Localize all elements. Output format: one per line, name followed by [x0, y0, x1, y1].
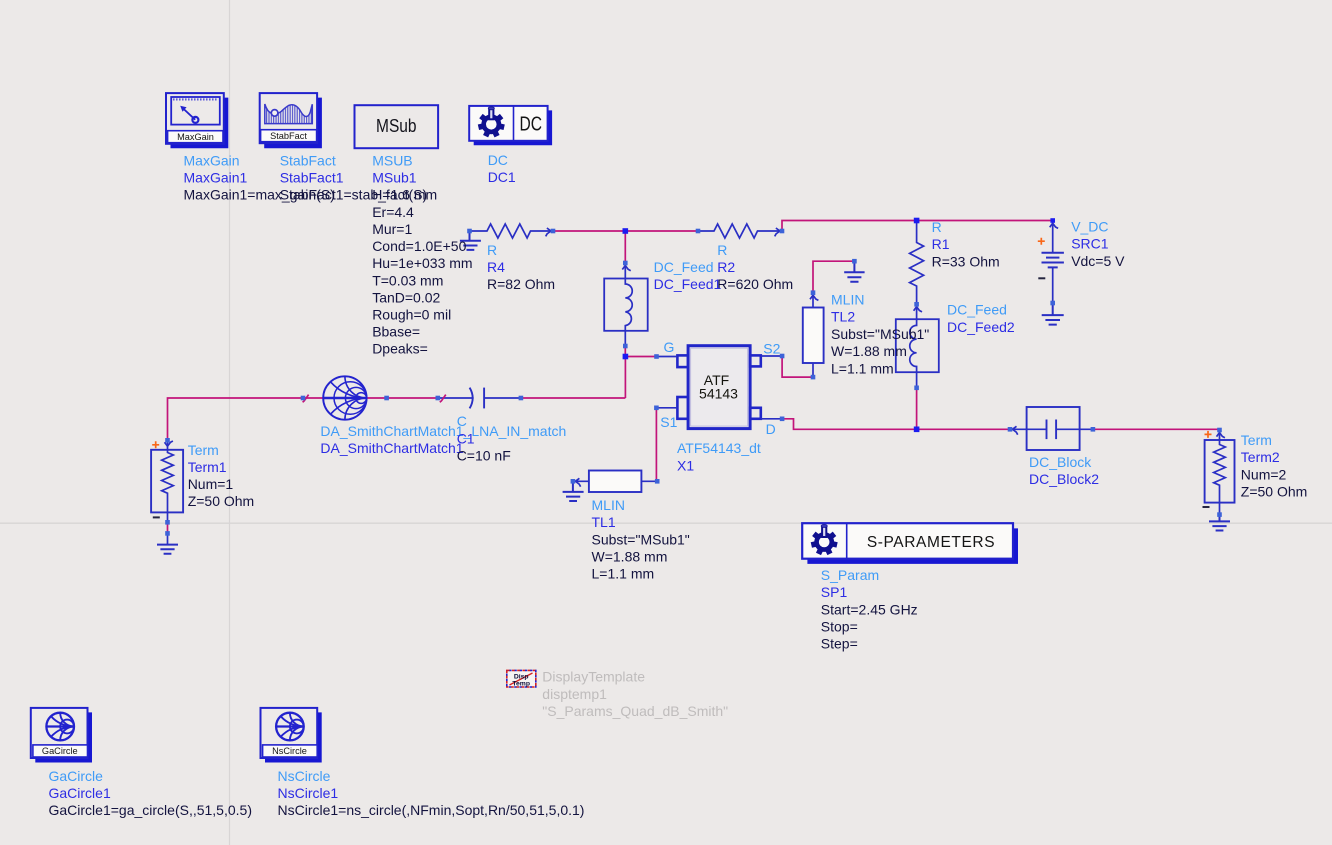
label S_Param SP1 values	[821, 567, 918, 652]
svg-text:Step=: Step=	[821, 636, 858, 652]
svg-text:C: C	[457, 413, 467, 429]
resistor R1	[910, 221, 924, 320]
wire D stub	[761, 418, 782, 420]
plus sign V_DC	[1038, 238, 1045, 245]
StabFact measurement icon	[260, 93, 322, 148]
node TL1 left	[571, 479, 576, 484]
wire drain to output line	[782, 419, 1010, 430]
svg-text:disptemp1: disptemp1	[542, 686, 607, 702]
svg-text:DA_SmithChartMatch1_LNA_IN_mat: DA_SmithChartMatch1_LNA_IN_match	[320, 423, 566, 439]
label DC_Feed1	[654, 259, 722, 292]
S-PARAMETERS simulation controller icon SP1	[802, 523, 1018, 564]
svg-text:TanD=0.02: TanD=0.02	[372, 289, 440, 305]
wire TL2 top to bias ground	[813, 261, 854, 293]
svg-text:DisplayTemplate: DisplayTemplate	[542, 669, 645, 685]
svg-text:MSUB: MSUB	[372, 153, 412, 169]
wire smith chart to C1	[366, 397, 438, 399]
node V_DC bottom	[1050, 301, 1055, 306]
svg-text:DC_Feed: DC_Feed	[947, 302, 1007, 318]
svg-text:DC: DC	[488, 152, 508, 168]
svg-text:MSub1: MSub1	[372, 170, 417, 186]
svg-text:DC_Block: DC_Block	[1029, 454, 1092, 470]
pin G notch	[677, 355, 688, 367]
svg-text:DC_Feed: DC_Feed	[654, 259, 714, 275]
svg-text:NsCircle1: NsCircle1	[278, 785, 339, 801]
wire R2 right jog up to VCC rail	[782, 221, 1053, 232]
inductor DC_Feed2	[896, 319, 939, 388]
label Term2 values	[1241, 432, 1308, 499]
svg-text:Hu=1e+033 mm: Hu=1e+033 mm	[372, 255, 472, 271]
svg-text:C1: C1	[457, 430, 475, 446]
svg-text:Cond=1.0E+50: Cond=1.0E+50	[372, 238, 466, 254]
wire S1 stub	[656, 407, 677, 409]
node V_DC top	[1050, 218, 1055, 223]
dc source V_DC SRC1	[1038, 221, 1064, 304]
wire S2 stub	[761, 355, 782, 357]
wire Term1 to ground	[167, 522, 169, 533]
ground below Term1	[157, 545, 178, 554]
svg-text:Start=2.45 GHz: Start=2.45 GHz	[821, 601, 918, 617]
svg-text:GaCircle: GaCircle	[42, 746, 78, 756]
svg-text:S2: S2	[763, 340, 780, 356]
node R1 top rail	[914, 218, 920, 224]
label C1 values	[457, 413, 511, 463]
label transistor X1	[677, 440, 761, 473]
svg-text:Rough=0 mil: Rough=0 mil	[372, 307, 451, 323]
node bias ground net	[852, 259, 857, 264]
page boundary horizontal line	[0, 522, 1332, 524]
label DisplayTemplate values	[542, 669, 728, 719]
wire input to smith chart	[303, 397, 324, 399]
svg-text:W=1.88 mm: W=1.88 mm	[831, 343, 907, 359]
svg-text:MLIN: MLIN	[592, 497, 625, 513]
svg-text:R4: R4	[487, 259, 505, 275]
label MLIN TL2 values	[831, 292, 929, 377]
inductor DC_Feed1	[604, 263, 648, 346]
label Term1 values	[188, 442, 255, 509]
svg-text:R=33 Ohm: R=33 Ohm	[932, 253, 1000, 269]
svg-text:MSub: MSub	[376, 115, 417, 136]
node S2 stub	[780, 354, 785, 359]
svg-text:R: R	[932, 219, 942, 235]
svg-text:H=1.6 mm: H=1.6 mm	[372, 187, 437, 203]
dc block capacitor DC_Block2	[1010, 407, 1093, 450]
svg-text:Stop=: Stop=	[821, 619, 858, 635]
svg-text:Term1: Term1	[188, 459, 227, 475]
node DC_Feed1 bottom	[623, 344, 628, 349]
svg-text:NsCircle1=ns_circle(,NFmin,Sop: NsCircle1=ns_circle(,NFmin,Sopt,Rn/50,51…	[278, 802, 585, 818]
port Term2	[1203, 430, 1235, 515]
wire source S2 pin down and to TL2	[782, 356, 813, 377]
resistor R2	[698, 224, 782, 238]
node TL2 bottom net	[811, 375, 816, 380]
svg-text:Vdc=5 V: Vdc=5 V	[1071, 253, 1125, 269]
svg-text:DC_Feed1: DC_Feed1	[654, 276, 722, 292]
svg-text:DC_Block2: DC_Block2	[1029, 471, 1099, 487]
DC simulation controller icon DC1	[469, 106, 552, 145]
label StabFact block	[280, 153, 427, 203]
svg-text:Dpeaks=: Dpeaks=	[372, 341, 428, 357]
pin S2 notch	[750, 355, 761, 366]
label V_DC SRC1 values	[1071, 218, 1125, 268]
label NsCircle values	[278, 768, 585, 818]
node C1 left	[436, 396, 441, 401]
node Term1 bottom	[165, 520, 170, 525]
svg-text:GaCircle: GaCircle	[49, 768, 104, 784]
svg-text:MaxGain: MaxGain	[184, 153, 240, 169]
microstrip line TL2	[803, 293, 824, 377]
svg-text:S1: S1	[660, 414, 677, 430]
capacitor C1	[438, 388, 521, 409]
svg-text:GaCircle1=ga_circle(S,,51,5,0.: GaCircle1=ga_circle(S,,51,5,0.5)	[49, 802, 253, 818]
ground below Term2	[1209, 515, 1230, 531]
svg-text:R1: R1	[932, 236, 950, 252]
svg-text:Term2: Term2	[1241, 449, 1280, 465]
svg-text:Z=50 Ohm: Z=50 Ohm	[1241, 483, 1308, 499]
wire DC_Feed1 bottom to G junction	[624, 346, 626, 357]
svg-text:Term: Term	[1241, 432, 1272, 448]
svg-text:StabFact: StabFact	[270, 131, 307, 141]
node DC_Feed1 top	[623, 261, 628, 266]
svg-text:MLIN: MLIN	[831, 292, 864, 308]
svg-text:L=1.1 mm: L=1.1 mm	[592, 566, 655, 582]
node input after Term1	[301, 396, 306, 401]
label R1 values	[932, 219, 1000, 269]
node R1 bottom	[914, 302, 919, 307]
ground below V_DC	[1042, 303, 1064, 325]
junction nodes	[165, 218, 1222, 536]
svg-text:DA_SmithChartMatch1: DA_SmithChartMatch1	[320, 440, 463, 456]
svg-text:StabFact1: StabFact1	[280, 170, 344, 186]
node R2 left	[696, 229, 701, 234]
svg-text:T=0.03 mm: T=0.03 mm	[372, 272, 443, 288]
microstrip line TL1	[573, 471, 657, 493]
label MaxGain block	[184, 153, 335, 203]
transistor package ATF54143 X1	[656, 346, 782, 429]
wire G junction down to input line	[624, 357, 626, 399]
wire gate stub	[657, 356, 678, 358]
svg-text:Num=1: Num=1	[188, 476, 234, 492]
node TL2 top	[811, 290, 816, 295]
svg-text:Bbase=: Bbase=	[372, 324, 420, 340]
svg-text:R=620 Ohm: R=620 Ohm	[717, 276, 793, 292]
node DC_Feed2 bottom	[914, 386, 919, 391]
svg-text:S-PARAMETERS: S-PARAMETERS	[867, 534, 995, 551]
ground at TL1 left	[563, 481, 584, 501]
ground at TL2 bias net	[844, 261, 864, 282]
svg-text:Term: Term	[188, 442, 219, 458]
label DC_Block2	[1029, 454, 1099, 487]
svg-text:DC1: DC1	[488, 169, 516, 185]
ground at R4 left	[460, 231, 481, 250]
minus sign Term2	[1203, 506, 1210, 508]
svg-text:Disp: Disp	[514, 673, 529, 680]
pin D notch	[750, 408, 761, 419]
minus sign Term1	[153, 516, 160, 518]
wire C1 to gate riser	[521, 397, 626, 399]
node Term2 bottom	[1217, 512, 1222, 517]
label smith chart match	[320, 423, 566, 456]
node Term1 top	[165, 438, 170, 443]
svg-text:Subst="MSub1": Subst="MSub1"	[592, 531, 690, 547]
node DC_Block right	[1091, 427, 1096, 432]
node DC_Block left	[1008, 427, 1013, 432]
svg-text:MaxGain1: MaxGain1	[184, 170, 248, 186]
node R4 left	[467, 229, 472, 234]
wire Term1 riser	[168, 398, 304, 440]
svg-text:L=1.1 mm: L=1.1 mm	[831, 360, 894, 376]
svg-text:Er=4.4: Er=4.4	[372, 204, 414, 220]
label DC_Feed2	[947, 302, 1015, 335]
wire G junction to gate	[625, 356, 656, 358]
wire DC_Block to Term2	[1093, 428, 1220, 430]
pin S1 notch	[677, 397, 688, 419]
port Term1	[151, 440, 183, 544]
svg-text:Mur=1: Mur=1	[372, 221, 412, 237]
node D stub	[780, 417, 785, 422]
plus sign Term2	[1205, 431, 1212, 438]
svg-text:SP1: SP1	[821, 584, 848, 600]
svg-text:Z=50 Ohm: Z=50 Ohm	[188, 493, 255, 509]
svg-text:NsCircle: NsCircle	[272, 746, 307, 756]
svg-text:G: G	[664, 339, 675, 355]
svg-text:C=10 nF: C=10 nF	[457, 448, 511, 464]
svg-text:R=82 Ohm: R=82 Ohm	[487, 276, 555, 292]
svg-text:MaxGain: MaxGain	[177, 132, 214, 142]
svg-text:V_DC: V_DC	[1071, 218, 1108, 234]
svg-text:DC: DC	[520, 114, 543, 136]
svg-text:SRC1: SRC1	[1071, 236, 1109, 252]
node drain line junction	[914, 427, 920, 433]
wire source S1 pin down to TL1	[655, 408, 657, 482]
minus sign V_DC	[1038, 277, 1045, 279]
svg-text:GaCircle1: GaCircle1	[49, 785, 111, 801]
svg-text:R: R	[717, 242, 727, 258]
page boundary vertical line	[229, 0, 231, 845]
svg-text:S_Param: S_Param	[821, 567, 879, 583]
svg-text:"S_Params_Quad_dB_Smith": "S_Params_Quad_dB_Smith"	[542, 703, 728, 719]
node R2 right	[780, 229, 785, 234]
svg-text:NsCircle: NsCircle	[278, 768, 331, 784]
NsCircle measurement icon	[261, 708, 322, 763]
wire DC_Feed2 bottom to drain line	[916, 388, 918, 430]
svg-text:Subst="MSub1": Subst="MSub1"	[831, 326, 929, 342]
node G junction	[623, 354, 629, 360]
smith chart matching network DA_SmithChartMatch1	[323, 376, 366, 419]
svg-text:54143: 54143	[699, 385, 738, 401]
label MLIN TL1 values	[592, 497, 690, 582]
svg-text:R: R	[487, 242, 497, 258]
node Term1 ground	[165, 531, 170, 536]
node C1 right	[519, 396, 524, 401]
GaCircle measurement icon	[31, 708, 92, 763]
label R4 values	[487, 242, 555, 292]
svg-text:X1: X1	[677, 457, 694, 473]
svg-text:D: D	[766, 421, 776, 437]
MaxGain measurement icon	[166, 93, 228, 148]
svg-text:ATF54143_dt: ATF54143_dt	[677, 440, 761, 456]
label GaCircle values	[49, 768, 253, 818]
node TL1 right	[655, 479, 660, 484]
node S1 stub	[654, 406, 659, 411]
svg-text:TL2: TL2	[831, 309, 855, 325]
node rail junction x625	[623, 228, 629, 234]
svg-text:DC_Feed2: DC_Feed2	[947, 319, 1015, 335]
node Term2 top	[1217, 428, 1222, 433]
svg-text:StabFact: StabFact	[280, 153, 336, 169]
svg-text:Num=2: Num=2	[1241, 466, 1287, 482]
svg-text:R2: R2	[717, 259, 735, 275]
resistor R4	[470, 224, 554, 238]
svg-text:W=1.88 mm: W=1.88 mm	[592, 549, 668, 565]
label DC block	[488, 152, 516, 185]
node gate stub	[654, 354, 659, 359]
label R2 values	[717, 242, 793, 292]
MSUB substrate box MSub	[355, 105, 439, 148]
node smith right	[384, 396, 389, 401]
wire top rail R4 to R2	[553, 230, 698, 232]
node R4 right	[551, 229, 556, 234]
label MSUB block values	[372, 153, 472, 357]
svg-text:Temp: Temp	[512, 680, 530, 687]
wire junction x625 down to DC_Feed1	[624, 231, 626, 263]
svg-text:TL1: TL1	[592, 514, 616, 530]
plus sign Term1	[152, 441, 159, 448]
DisplayTemplate icon disptemp1	[507, 670, 536, 687]
